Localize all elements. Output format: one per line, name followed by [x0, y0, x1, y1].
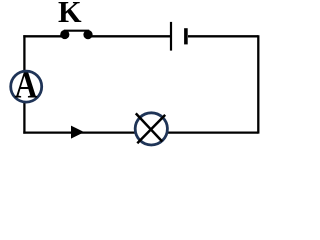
- battery long plate (+): [170, 22, 172, 51]
- lamp cross stroke 2: [137, 115, 165, 143]
- battery short plate (-): [184, 28, 188, 44]
- ammeter U1 circle: [11, 71, 42, 102]
- wire left vertical: [23, 35, 25, 133]
- wire right vertical: [257, 35, 259, 133]
- svg-text:K: K: [58, 0, 82, 29]
- wire top-right segment (battery to corner): [188, 35, 258, 37]
- switch K right contact dot: [83, 30, 92, 39]
- svg-text:A: A: [15, 64, 38, 106]
- wire bottom horizontal: [23, 131, 258, 133]
- wire top-left segment (corner to switch): [23, 35, 67, 37]
- wire top-middle segment (switch to battery): [87, 35, 170, 37]
- switch K bridge bar: [64, 30, 89, 32]
- lamp circle: [135, 113, 167, 145]
- current direction arrow: [71, 126, 84, 139]
- lamp cross stroke 1: [136, 113, 162, 141]
- switch K left contact dot: [60, 30, 69, 39]
